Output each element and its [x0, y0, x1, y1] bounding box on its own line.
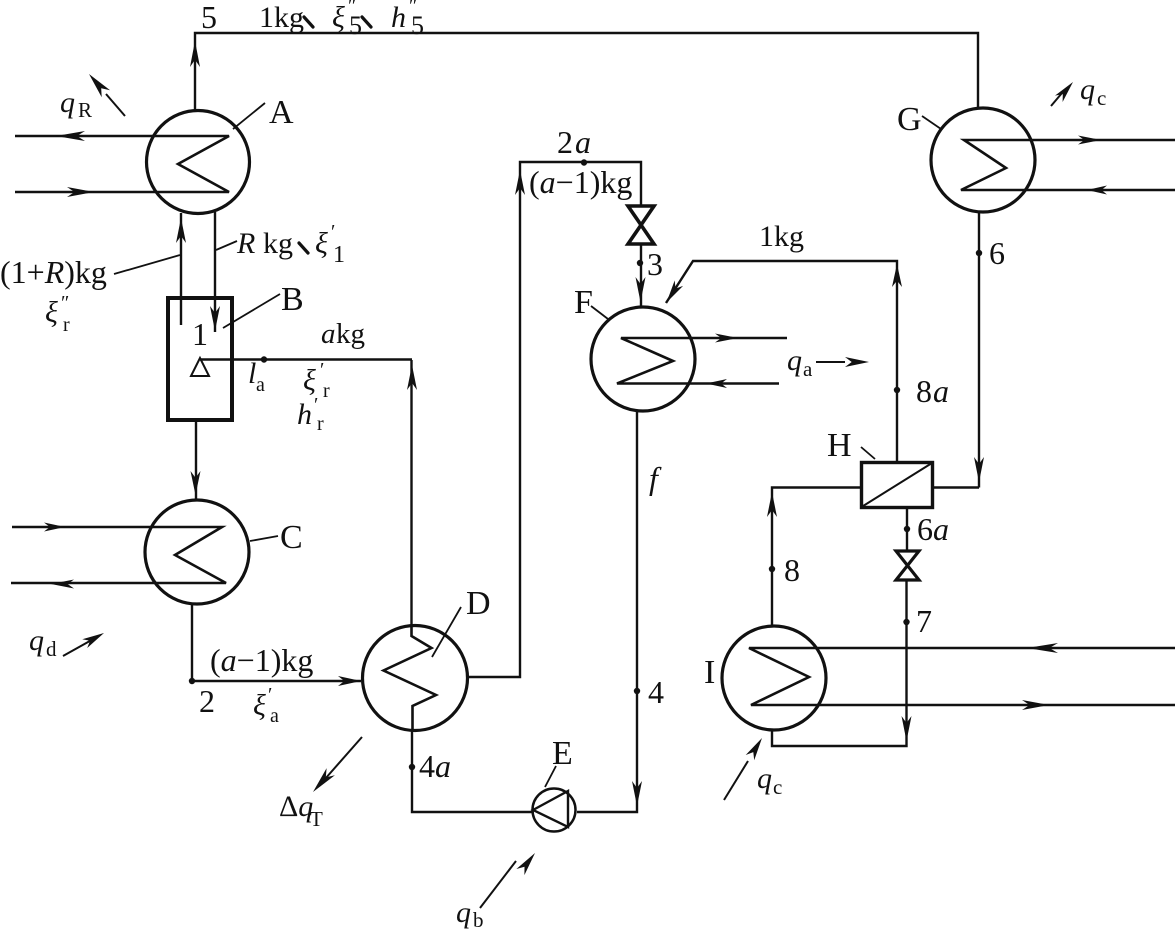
wire F bottom f-line to pump E: [577, 410, 637, 812]
svg-text:5: 5: [411, 11, 424, 40]
svg-text:c: c: [1097, 86, 1106, 110]
svg-text:a: a: [803, 357, 813, 381]
wire G bottom via node 6 to H right: [934, 212, 979, 488]
absorber F circle: [591, 307, 695, 411]
label B leader: [223, 294, 280, 328]
bubble tray triangle in B: [191, 358, 209, 376]
svg-text:4a: 4a: [419, 748, 451, 784]
svg-text:8: 8: [916, 373, 932, 409]
wire D right to riser to 2a line to valve 1: [468, 162, 641, 677]
svg-text:q: q: [456, 896, 471, 929]
svg-text:d: d: [46, 637, 57, 661]
svg-text:″: ″: [61, 292, 69, 314]
svg-text:H: H: [827, 427, 852, 464]
node 8a dot: [894, 387, 900, 393]
label R kg xi1 leader: [216, 241, 237, 250]
svg-text:q: q: [787, 344, 802, 377]
wire valve 1 to F top (node 3): [640, 243, 642, 307]
svg-text:a: a: [270, 705, 279, 727]
svg-text:1: 1: [333, 242, 345, 268]
svg-text:ξ: ξ: [315, 227, 328, 260]
expansion valve 2: [896, 551, 919, 580]
node 8 dot: [769, 566, 775, 572]
heat qc arrow (condenser): [1051, 93, 1062, 106]
svg-text:1kg: 1kg: [759, 220, 804, 253]
svg-text:6: 6: [989, 235, 1005, 271]
node 6 dot: [976, 250, 982, 256]
label D leader: [432, 607, 461, 657]
svg-text:r: r: [323, 380, 330, 402]
evaporator I circle: [722, 626, 826, 730]
label E leader: [545, 766, 556, 787]
svg-text:B: B: [281, 281, 304, 318]
svg-text:a: a: [933, 373, 949, 409]
svg-text:7: 7: [916, 603, 932, 639]
node la dot: [261, 356, 267, 362]
svg-text:A: A: [269, 94, 294, 131]
svg-text:R: R: [236, 227, 255, 260]
svg-text:1kg: 1kg: [259, 1, 304, 34]
heat qa arrow: [816, 361, 845, 363]
wire vapor line 5 (A top to G top): [195, 33, 978, 111]
svg-text:ξ: ξ: [253, 689, 266, 722]
svg-text:5: 5: [349, 11, 362, 40]
regenerator H diagonal: [862, 463, 933, 507]
svg-text:ξ: ξ: [332, 1, 345, 34]
node 7 dot: [903, 619, 909, 625]
wire pump E to D bottom via node 4a: [412, 731, 532, 812]
label G leader: [922, 116, 941, 129]
condenser G circle: [931, 108, 1035, 212]
svg-text:h: h: [391, 1, 406, 34]
node 6a dot: [904, 526, 910, 532]
svg-text:8: 8: [784, 552, 800, 588]
svg-text:1: 1: [192, 316, 208, 352]
wire H left to I top via node 8: [772, 488, 860, 628]
svg-text:q: q: [1080, 73, 1095, 106]
node 2 dot: [189, 678, 195, 684]
node 2a dot: [581, 159, 587, 165]
svg-text:(1+R)kg: (1+R)kg: [0, 254, 107, 290]
svg-text:Δq: Δq: [279, 790, 313, 823]
heat exchanger D circle: [363, 626, 468, 731]
svg-text:h: h: [297, 398, 312, 431]
svg-text:a: a: [321, 318, 336, 350]
label C leader: [250, 536, 278, 541]
svg-text:G: G: [897, 101, 922, 138]
expansion valve 1: [628, 206, 654, 244]
wire D top to corner to B (a kg feed): [200, 360, 412, 627]
svg-text:′: ′: [331, 221, 335, 243]
svg-text:5: 5: [201, 0, 217, 35]
svg-text:′: ′: [320, 359, 324, 381]
svg-text:ξ: ξ: [45, 296, 58, 329]
label H leader: [861, 447, 875, 459]
svg-text:b: b: [473, 908, 484, 929]
heat qc arrow (evaporator): [724, 761, 748, 800]
coil zigzag in C with external lines: [11, 527, 226, 583]
heat qb arrow: [480, 861, 516, 908]
pump E impeller triangle: [533, 791, 568, 827]
svg-text:T: T: [310, 807, 323, 831]
svg-text:a: a: [575, 124, 591, 160]
svg-text:2: 2: [557, 124, 573, 160]
wire H bottom to valve 2 (node 6a): [906, 509, 908, 552]
pump E circle: [533, 789, 576, 832]
svg-text:c: c: [773, 775, 782, 799]
node 4a dot: [409, 764, 415, 770]
heat exchanger A circle: [147, 111, 250, 214]
label F leader: [591, 306, 608, 319]
wire valve 2 via node 7 to I bottom: [772, 579, 907, 746]
label A leader: [233, 103, 265, 129]
label (1+R)kg leader: [114, 255, 180, 274]
coil zigzag in F with external lines: [617, 338, 787, 384]
node 4 dot: [634, 688, 640, 694]
svg-text:q: q: [757, 762, 772, 795]
svg-text:F: F: [574, 284, 593, 321]
wire C bottom to node 2 to D left: [192, 604, 361, 681]
vertical coil zigzag in D: [384, 626, 437, 730]
wire A-to-B right R kg reflux: [214, 212, 216, 332]
regenerator H box: [862, 463, 933, 508]
svg-text:(a−1)kg: (a−1)kg: [529, 164, 632, 200]
coil zigzag in G with external lines: [961, 140, 1175, 190]
heat qR arrow: [106, 94, 125, 116]
svg-text:I: I: [704, 654, 715, 691]
svg-text:D: D: [466, 585, 491, 622]
coil zigzag in I with external lines: [749, 648, 1175, 705]
svg-text:kg: kg: [263, 227, 293, 260]
heat qd arrow: [63, 637, 97, 656]
coil zigzag in A with external coolant lines: [15, 136, 229, 192]
svg-text:r: r: [317, 413, 324, 435]
rectifier column B rectangle: [168, 298, 232, 420]
svg-text:6a: 6a: [917, 511, 949, 547]
svg-text:2: 2: [199, 683, 215, 719]
svg-text:kg: kg: [336, 318, 365, 350]
heat dqT arrow: [325, 737, 362, 779]
wire A-to-B left (1+R)kg riser: [180, 213, 182, 325]
svg-text:3: 3: [647, 246, 663, 282]
svg-text:a: a: [256, 374, 265, 396]
svg-text:q: q: [29, 624, 44, 657]
svg-text:q: q: [60, 86, 75, 119]
svg-text:E: E: [552, 735, 573, 772]
svg-text:′: ′: [268, 684, 272, 706]
svg-text:4: 4: [648, 674, 664, 710]
svg-text:ξ: ξ: [303, 364, 316, 397]
svg-text:(a−1)kg: (a−1)kg: [210, 642, 313, 678]
svg-text:r: r: [63, 314, 70, 336]
wire B bottom to C top: [195, 421, 197, 499]
svg-text:C: C: [280, 519, 303, 556]
node 3 dot: [637, 260, 643, 266]
heat exchanger C circle: [145, 500, 249, 604]
wire 1kg from H top via 8a to F: [666, 261, 897, 462]
svg-text:R: R: [78, 98, 92, 122]
